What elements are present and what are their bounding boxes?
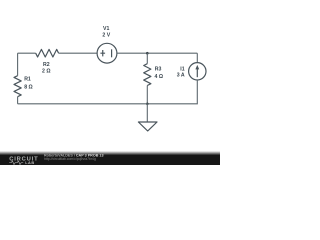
wire R3 bottom to bottom wire	[146, 86, 148, 104]
svg-text:http://circuitlab.com/c/pq5vra: http://circuitlab.com/c/pq5vra7br4g	[44, 157, 96, 161]
wire R3 branch from top node	[146, 53, 148, 64]
wire I1 bottom to bottom-right corner and bottom wire right half	[147, 80, 197, 104]
wire left side from top corner down to R1	[17, 53, 19, 75]
arrow up	[196, 69, 198, 77]
node junction top of R3 branch	[146, 52, 149, 55]
plus terminal mark	[100, 50, 105, 56]
svg-text:4 Ω: 4 Ω	[155, 74, 164, 80]
wire V1 right to top-right corner	[117, 52, 197, 54]
wire R1 bottom to bottom-left corner	[17, 97, 19, 104]
resistor R2	[36, 49, 59, 74]
svg-text:2 V: 2 V	[102, 33, 110, 39]
wire R2 right to V1 left	[59, 52, 98, 54]
svg-text:8 Ω: 8 Ω	[24, 84, 33, 90]
svg-text:3 A: 3 A	[177, 73, 185, 79]
wire top-left horizontal	[18, 52, 36, 54]
svg-text:LAB: LAB	[25, 161, 34, 165]
svg-text:V1: V1	[103, 26, 109, 32]
voltage source V1	[97, 26, 117, 63]
bottom wire left half	[18, 103, 148, 105]
svg-text:2 Ω: 2 Ω	[42, 69, 51, 75]
svg-text:R3: R3	[155, 66, 162, 72]
resistor R1	[14, 76, 33, 97]
wire right side down to I1	[196, 53, 198, 63]
node junction bottom of R3/ground	[146, 103, 149, 106]
svg-text:R1: R1	[24, 77, 31, 83]
resistor R3	[144, 64, 163, 86]
CircuitLab logo	[9, 157, 38, 165]
current source I1	[177, 63, 206, 80]
minus terminal mark (vertical bar)	[111, 49, 113, 57]
ground	[138, 104, 157, 131]
svg-text:R2: R2	[43, 62, 50, 68]
